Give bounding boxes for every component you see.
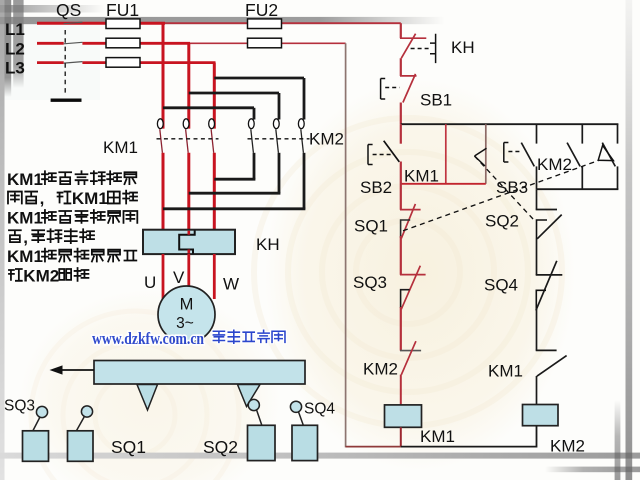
svg-text:L2: L2	[5, 40, 25, 59]
switch QS blades	[64, 22, 83, 63]
svg-text:L1: L1	[5, 20, 25, 39]
linkage SQ1 to right arrow	[403, 145, 613, 230]
wire phase A vertical (KM1 input)	[162, 23, 165, 128]
dog triangle 2	[238, 385, 261, 407]
svg-text:KM1: KM1	[7, 170, 43, 189]
svg-text:KM2: KM2	[550, 437, 585, 456]
wire control bottom rail	[346, 446, 537, 448]
svg-text:KM1: KM1	[72, 189, 108, 208]
wire V stub in KH box	[188, 231, 191, 254]
svg-text:SQ1: SQ1	[111, 437, 146, 457]
wire feed to KM2 pole 3	[214, 78, 304, 120]
limit contact SQ4	[536, 261, 563, 351]
limit contact SQ2 (NO)	[536, 189, 562, 275]
button SB3 actuator	[504, 143, 520, 163]
svg-text:KM1: KM1	[7, 247, 43, 266]
interlock contact KM2 (NC)	[400, 341, 421, 375]
svg-text:FU2: FU2	[245, 0, 278, 20]
fuse FU2a	[248, 19, 282, 29]
platform bar	[94, 361, 305, 385]
wire motor lead W	[213, 254, 216, 299]
wire SB1 to top rail node	[400, 103, 402, 125]
svg-text:SQ1: SQ1	[354, 217, 388, 236]
wire feed to KM2 pole 2	[189, 93, 279, 120]
wire phase C vertical (KM1 input)	[213, 63, 216, 129]
wire KM2 interlock to coil KM1	[400, 375, 402, 405]
svg-text:SQ2: SQ2	[485, 212, 519, 231]
svg-text:KM2: KM2	[363, 360, 398, 379]
arrow left	[50, 365, 95, 374]
svg-text:,: ,	[23, 228, 28, 247]
svg-text:KM2: KM2	[309, 130, 344, 149]
fuse FU1c	[106, 58, 140, 68]
wire SQ3 to KM2 interlock	[400, 307, 402, 351]
wire control hot from L1	[400, 23, 402, 38]
wire KH to SB1	[400, 58, 402, 76]
dog triangle 1	[137, 385, 158, 411]
wire SQ1 to SQ3	[400, 236, 402, 275]
svg-text:V: V	[173, 268, 185, 287]
KM1 linkage dashed	[157, 138, 219, 140]
svg-text:L3: L3	[5, 59, 25, 78]
contactor KM1 pole 3	[209, 119, 215, 231]
svg-text:KM1: KM1	[404, 167, 439, 186]
svg-text:M: M	[180, 296, 194, 314]
svg-text:www.dzkfw.com.cn: www.dzkfw.com.cn	[92, 329, 204, 348]
fuse FU1a	[106, 19, 140, 29]
wire control return L2 vertical	[345, 43, 347, 447]
linkage arrow to SQ2	[475, 148, 534, 219]
interlock contact KM1 (NC)	[536, 350, 567, 404]
limit switch SQ3 body b	[68, 406, 94, 461]
svg-text:SB1: SB1	[420, 91, 452, 110]
annotation paragraph (Chinese)	[7, 170, 137, 286]
contactor KM2 pole 2	[273, 119, 279, 193]
svg-text:FU1: FU1	[106, 0, 139, 20]
wire motor lead V	[187, 254, 190, 288]
wire coil KM1 to bottom rail	[400, 427, 402, 447]
start button SB2 (NO)	[368, 124, 401, 164]
wire coil KM2 to bottom rail	[536, 426, 538, 448]
wire KM2 pole1 to phase C	[214, 178, 255, 181]
wire right bank bottom	[537, 188, 619, 190]
coil KM1	[385, 405, 422, 427]
aux contact column A (SB3 NO)	[521, 124, 536, 189]
svg-text:SQ3: SQ3	[353, 273, 387, 292]
wire KM2 pole2 to phase B	[189, 192, 281, 195]
motor M 3~	[158, 286, 215, 343]
fuse FU1b	[106, 38, 140, 48]
watermark www.dzkfw.com.cn	[92, 329, 285, 348]
wire L2 phase line	[37, 42, 346, 45]
svg-text:W: W	[223, 275, 239, 294]
aux contact column B (KM2 aux)	[567, 124, 582, 189]
contactor KM1 pole 1	[157, 119, 163, 231]
svg-text:KM1: KM1	[420, 427, 455, 446]
switch QS handle bar	[51, 98, 82, 101]
svg-text:KM1: KM1	[7, 209, 43, 228]
wire L1 phase line	[37, 22, 401, 25]
limit switch SQ3 body a	[23, 406, 49, 461]
svg-text:KM2: KM2	[23, 267, 59, 286]
contactor KM1 pole 2	[183, 119, 189, 231]
aux contact column C	[602, 124, 617, 189]
thermal contact KH (NC)	[400, 34, 436, 63]
svg-text:,: ,	[40, 189, 45, 208]
svg-text:SB2: SB2	[360, 178, 392, 197]
switch QS linkage dashed	[64, 30, 66, 96]
wire KM2 pole3 to phase A	[163, 207, 305, 210]
contactor KM2 pole 3	[298, 119, 304, 209]
coil KM2	[523, 405, 559, 426]
svg-text:U: U	[144, 273, 156, 292]
limit switch SQ4 body	[290, 401, 317, 460]
wire feed to KM2 pole 1	[163, 108, 254, 120]
thermal relay KH box	[143, 230, 235, 254]
svg-text:QS: QS	[56, 0, 81, 20]
limit switch SQ2 body	[248, 399, 276, 460]
svg-text:SQ4: SQ4	[484, 276, 518, 295]
svg-text:KH: KH	[451, 38, 475, 57]
contactor KM2 pole 1	[248, 119, 254, 179]
svg-text:KM1: KM1	[488, 362, 523, 381]
svg-text:KM2: KM2	[537, 155, 572, 174]
limit contact SQ1 (NC)	[400, 204, 421, 239]
wire phase B vertical (KM1 input)	[187, 43, 190, 128]
wire latch branch 2	[485, 124, 487, 184]
wire SB2 to SQ1	[400, 162, 402, 210]
fuse FU2b	[248, 38, 282, 48]
KM2 linkage dashed	[248, 138, 310, 140]
limit contact SQ3 (NC)	[400, 266, 426, 310]
stop button SB1 (NC)	[381, 74, 417, 103]
wire L3 phase line	[37, 61, 216, 64]
wire motor lead U	[162, 254, 165, 299]
wire latch bottom	[401, 183, 486, 185]
svg-text:KH: KH	[256, 235, 280, 254]
wire control top rail	[401, 123, 619, 125]
svg-text:SQ4: SQ4	[304, 401, 335, 418]
svg-text:SQ3: SQ3	[4, 398, 35, 415]
svg-text:SQ2: SQ2	[203, 437, 238, 457]
svg-text:KM1: KM1	[103, 138, 138, 157]
wire latch branch 1	[445, 124, 447, 184]
